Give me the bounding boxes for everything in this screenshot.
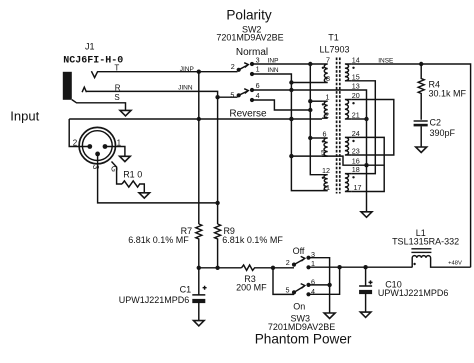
- junction R wire / vert2: [215, 95, 219, 99]
- wire T1 pin21 to screen node: [351, 118, 366, 120]
- ground jack sleeve: [120, 110, 131, 116]
- svg-text:UPW1J221MPD6: UPW1J221MPD6: [119, 295, 190, 305]
- transformer T1 winding 6-5: [322, 138, 328, 156]
- svg-text:2: 2: [73, 138, 78, 147]
- ground C1: [194, 321, 205, 326]
- svg-text:C2: C2: [430, 118, 442, 128]
- wire XLR pin1 to ground: [105, 147, 125, 157]
- wire phantom bus: R7/R9 node to SW3: [199, 267, 242, 269]
- inductor L1 winding: [412, 256, 470, 268]
- svg-text:Normal: Normal: [236, 47, 268, 58]
- wire output: SW3 pin1 to L1: [309, 266, 413, 268]
- svg-text:15: 15: [352, 72, 360, 81]
- junction R9/bus: [215, 266, 219, 270]
- svg-text:C1: C1: [180, 285, 192, 295]
- switch SW3 on pole: [292, 290, 296, 294]
- resistor R3: [242, 265, 295, 270]
- svg-text:T1: T1: [328, 32, 339, 42]
- transformer T1 winding 14-15: [345, 64, 351, 81]
- wire SW2 pin6 to bus v1: [252, 89, 291, 91]
- wire T1 pin6: [310, 137, 322, 139]
- svg-text:R1 0: R1 0: [123, 169, 142, 179]
- svg-text:LL7903: LL7903: [319, 45, 349, 55]
- junction R7/C1: [197, 266, 201, 270]
- svg-text:UPW1J221MPD6: UPW1J221MPD6: [378, 288, 449, 298]
- svg-text:23: 23: [352, 147, 360, 156]
- wire SW3 pin6: [309, 284, 330, 286]
- capacitor C2: [414, 120, 428, 122]
- capacitor C1: [192, 268, 205, 295]
- wire screen 13 crossing to pin 21: [291, 90, 366, 165]
- junction pin4/output: [337, 265, 341, 269]
- svg-text:Phantom Power: Phantom Power: [255, 332, 352, 347]
- wire XLR pin2 stub: [69, 119, 90, 147]
- jack ring contact: [82, 87, 86, 92]
- svg-text:6: 6: [256, 81, 260, 90]
- wire INP: SW2 pin3 to T1 pin7: [252, 63, 322, 65]
- connector J1 jack body: [63, 72, 72, 100]
- svg-text:2: 2: [231, 62, 235, 71]
- inductor L1 core bars: [411, 248, 431, 249]
- svg-text:1: 1: [256, 65, 260, 74]
- wire XLR box top: from jack area to T1 pin2: [69, 118, 322, 120]
- svg-text:1: 1: [326, 93, 330, 102]
- svg-text:INN: INN: [267, 67, 279, 74]
- svg-text:21: 21: [352, 111, 360, 120]
- wire SW3 pin4 up to output: [309, 267, 340, 294]
- junction INSE/R4: [419, 62, 423, 66]
- XLR pin 3: [95, 152, 100, 157]
- svg-text:30.1k MF: 30.1k MF: [429, 88, 467, 98]
- svg-text:16: 16: [352, 157, 360, 166]
- transformer T1 core: [337, 58, 340, 194]
- wire XLR pin3 down to R9 bus: [98, 154, 218, 203]
- connector XLR outer circle: [79, 127, 115, 163]
- junction R3/SW3 branch: [271, 266, 275, 270]
- wire T1 pin15 to pin18: [351, 81, 375, 174]
- ground C10: [360, 312, 371, 317]
- wire INN: SW2 pin1 to bus v1: [252, 74, 322, 191]
- wire INSE: T1 pin14 to right edge and down to L1: [351, 64, 470, 267]
- junction long wire / v1: [289, 117, 293, 121]
- junction long wire / vert1: [197, 117, 201, 121]
- wire vert2: R net down to R9: [217, 97, 219, 224]
- svg-text:Reverse: Reverse: [229, 109, 267, 120]
- svg-text:INP: INP: [268, 57, 279, 64]
- transformer T1 winding 20-21: [345, 100, 351, 120]
- wire S to ground: [72, 100, 126, 111]
- svg-text:13: 13: [352, 82, 360, 91]
- svg-text:Input: Input: [10, 108, 39, 123]
- wire vert1: T net down to R7: [198, 72, 200, 224]
- svg-text:Off: Off: [293, 246, 305, 256]
- svg-text:J1: J1: [85, 42, 95, 52]
- wire branch to SW3 pin5: [273, 268, 294, 295]
- svg-text:20: 20: [352, 91, 360, 100]
- svg-text:7201MD9AV2BE: 7201MD9AV2BE: [216, 33, 283, 43]
- transformer T1 winding 1-2: [322, 101, 328, 118]
- transformer T1 winding 18-17: [345, 174, 351, 192]
- ground T1 secondary: [361, 212, 372, 218]
- resistor R9: [215, 224, 221, 268]
- svg-text:2: 2: [286, 258, 290, 267]
- wire vertical v1 junction dots: [289, 80, 293, 84]
- connector XLR inner circle: [82, 131, 112, 161]
- wire T1 pin20 to pin23: [351, 100, 394, 156]
- svg-text:4: 4: [256, 91, 260, 100]
- svg-text:12: 12: [322, 166, 330, 175]
- junction screen/16: [364, 163, 368, 167]
- svg-text:S: S: [114, 93, 119, 102]
- wire vertical v2 junction dots: [308, 62, 312, 66]
- XLR pin 1: [103, 144, 108, 149]
- resistor R1: [122, 181, 144, 193]
- wire SW2 pin4 to T1 pin2 node: [252, 100, 310, 110]
- svg-text:On: On: [293, 301, 305, 311]
- wire R / JINN: [87, 91, 238, 97]
- transformer T1 winding 12-11: [322, 175, 328, 191]
- wire T1 pin5 and screen 16 crossing: [291, 156, 384, 165]
- XLR pin 2: [87, 144, 92, 149]
- svg-text:JINN: JINN: [178, 84, 193, 91]
- switch SW2 polarity normal pole: [237, 68, 241, 72]
- svg-text:3: 3: [256, 55, 260, 64]
- svg-text:JINP: JINP: [180, 66, 194, 73]
- svg-text:5: 5: [286, 286, 290, 295]
- wire bus v2: INP down to T1 pins 1,6,12: [310, 64, 322, 175]
- wire T1 pin1: [310, 100, 322, 102]
- svg-text:14: 14: [352, 56, 360, 65]
- svg-text:6.81k 0.1% MF: 6.81k 0.1% MF: [128, 235, 189, 245]
- wire secondary center to ground: [366, 165, 368, 212]
- svg-text:18: 18: [352, 165, 360, 174]
- svg-text:+48V: +48V: [448, 261, 462, 267]
- junction screen/21: [364, 117, 368, 121]
- ground C2: [416, 147, 427, 153]
- svg-text:200 MF: 200 MF: [236, 283, 267, 293]
- wire T / JINP: [98, 71, 238, 73]
- switch SW3 off pole: [292, 263, 296, 267]
- jack tip contact: [91, 71, 97, 77]
- svg-text:2: 2: [325, 111, 329, 120]
- transformer T1 winding 7-8: [322, 64, 328, 83]
- svg-text:3: 3: [91, 165, 100, 170]
- wire SW3 pin3 to ground: [309, 258, 330, 313]
- switch SW2 reverse pole: [237, 93, 241, 97]
- svg-text:5: 5: [321, 148, 325, 157]
- resistor R4: [418, 64, 424, 120]
- svg-text:17: 17: [354, 183, 362, 192]
- svg-text:5: 5: [230, 91, 234, 100]
- junction C10/output: [363, 265, 367, 269]
- transformer T1 winding 24-23: [345, 137, 351, 155]
- svg-text:6: 6: [323, 130, 327, 139]
- wire T1 pin24 to pin17: [351, 137, 384, 191]
- junction xlr3 wire / vert2: [215, 201, 219, 205]
- svg-text:INSE: INSE: [378, 57, 394, 64]
- svg-text:8: 8: [326, 74, 330, 83]
- svg-text:390pF: 390pF: [430, 128, 456, 138]
- ground SW3: [324, 313, 335, 319]
- ground XLR pin1: [120, 156, 131, 161]
- svg-text:7: 7: [326, 56, 330, 65]
- svg-text:11: 11: [323, 183, 330, 192]
- resistor R7: [196, 224, 202, 268]
- wire XLR ground pin to R1: [112, 162, 123, 185]
- wire T1 pin8 to bus v1: [291, 82, 322, 84]
- capacitor C10: [359, 267, 372, 286]
- svg-text:6.81k 0.1% MF: 6.81k 0.1% MF: [222, 235, 283, 245]
- junction pin6/pin3 vertical: [327, 283, 331, 287]
- ground R1: [139, 193, 150, 198]
- junction T wire / vert1: [197, 70, 201, 74]
- svg-text:Polarity: Polarity: [226, 7, 272, 22]
- svg-text:24: 24: [352, 129, 360, 138]
- svg-text:TSL1315RA-332: TSL1315RA-332: [392, 237, 459, 247]
